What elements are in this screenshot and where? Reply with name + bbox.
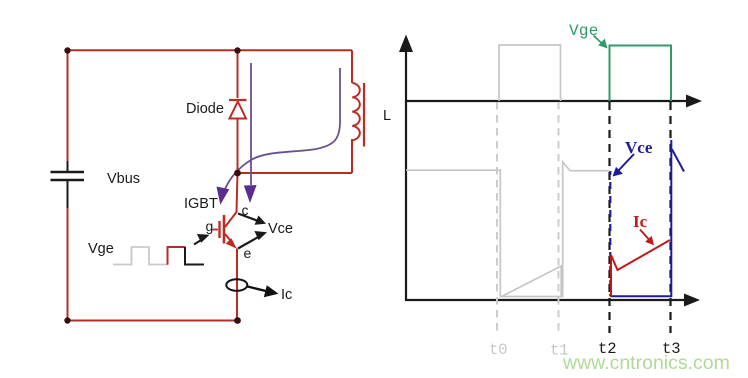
upper axis arrowhead: [686, 95, 702, 108]
lower axis arrowhead: [684, 294, 700, 307]
current probe ellipse: [226, 279, 247, 291]
svg-text:e: e: [244, 245, 252, 261]
lower horizontal axis: [405, 299, 687, 301]
blue Vce trace: [609, 171, 611, 296]
inductor core bar: [363, 83, 365, 147]
IGBT body bar: [223, 215, 226, 244]
arrowhead collector Vce: [255, 216, 267, 225]
wire emitter down: [236, 249, 238, 321]
svg-text:Ic: Ic: [633, 212, 648, 231]
wire inductor branch down: [351, 50, 353, 83]
blue Vce trace main: [611, 140, 672, 296]
svg-text:Vce: Vce: [625, 138, 653, 157]
wire diode branch lower: [237, 119, 239, 174]
svg-text:Ic: Ic: [281, 287, 292, 303]
red Ic trace: [611, 240, 670, 297]
gray Ic ramp: [502, 266, 562, 297]
arrow Vge to gate: [194, 239, 204, 245]
arrowhead emitter Vce: [254, 231, 267, 240]
Vge pulse gray part: [113, 247, 168, 265]
arrow Ic: [248, 287, 267, 292]
capacitor Vbus bottom lead: [67, 180, 69, 208]
capacitor C plate top: [51, 171, 85, 174]
green Vge pulse: [610, 46, 672, 102]
dashed black line t2: [608, 102, 610, 333]
wire bottom rail: [68, 320, 238, 322]
svg-text:www.cntronics.com: www.cntronics.com: [562, 352, 730, 374]
node dot bottom-left: [64, 317, 70, 323]
purple arrowhead B: [217, 187, 230, 205]
arrow emitter to Vce: [238, 236, 260, 249]
wire inductor bottom: [351, 139, 353, 173]
inductor L coil: [352, 83, 360, 140]
IGBT emitter diagonal: [225, 234, 233, 244]
svg-text:IGBT: IGBT: [184, 196, 218, 212]
gray Vge pulse (upper plot, previous cycle): [499, 45, 561, 101]
capacitor C plate bottom: [51, 179, 85, 182]
dashed gray line t1: [558, 102, 560, 333]
IGBT gate bar: [218, 221, 220, 238]
red arrow to trace: [640, 230, 649, 240]
purple current path B (from inductor): [225, 68, 340, 189]
green arrow to pulse: [594, 36, 603, 44]
wire IGBT collector: [225, 173, 238, 227]
node dot top-left: [64, 47, 70, 53]
wire top rail: [68, 49, 353, 51]
vertical axis arrowhead: [399, 35, 413, 53]
Vge pulse red part: [168, 247, 186, 265]
wire diode branch upper: [237, 50, 239, 98]
gray Vce trace: [406, 162, 609, 297]
upper horizontal axis: [405, 100, 689, 102]
dashed gray line t0: [496, 102, 498, 333]
red arrowhead: [645, 236, 654, 245]
arrow collector to Vce: [238, 214, 259, 222]
IGBT emitter arrow: [226, 238, 237, 249]
capacitor Vbus top lead: [67, 161, 69, 172]
purple current path A (through diode branch): [250, 63, 252, 185]
node dot top-mid: [234, 47, 240, 53]
diode D1 cathode bar: [229, 99, 247, 101]
svg-text:g: g: [206, 218, 214, 234]
diode D1 triangle: [230, 102, 247, 119]
blue Vce settle diagonal: [672, 149, 684, 172]
node dot bottom-mid: [234, 317, 241, 324]
IGBT gate lead: [213, 229, 219, 231]
svg-text:t0: t0: [489, 341, 508, 359]
dashed black line t3: [669, 102, 671, 333]
svg-text:Diode: Diode: [186, 101, 224, 117]
svg-text:Vbus: Vbus: [107, 171, 140, 187]
node dot collector junction: [234, 170, 241, 177]
blue arrow to trace: [619, 154, 635, 171]
wire left rail lower: [67, 208, 69, 321]
svg-text:L: L: [383, 108, 391, 124]
wire left rail: [67, 50, 69, 161]
svg-text:Vce: Vce: [268, 221, 293, 237]
arrowhead Vge to gate: [197, 234, 210, 243]
Vge pulse black part: [185, 247, 204, 265]
vertical axis: [405, 46, 407, 301]
green arrowhead: [598, 39, 607, 49]
blue arrowhead: [613, 167, 623, 177]
wire mid rail to collector node: [238, 172, 353, 174]
arrowhead Ic: [264, 285, 279, 297]
svg-text:Vge: Vge: [88, 241, 114, 257]
purple arrowhead A: [244, 185, 257, 203]
